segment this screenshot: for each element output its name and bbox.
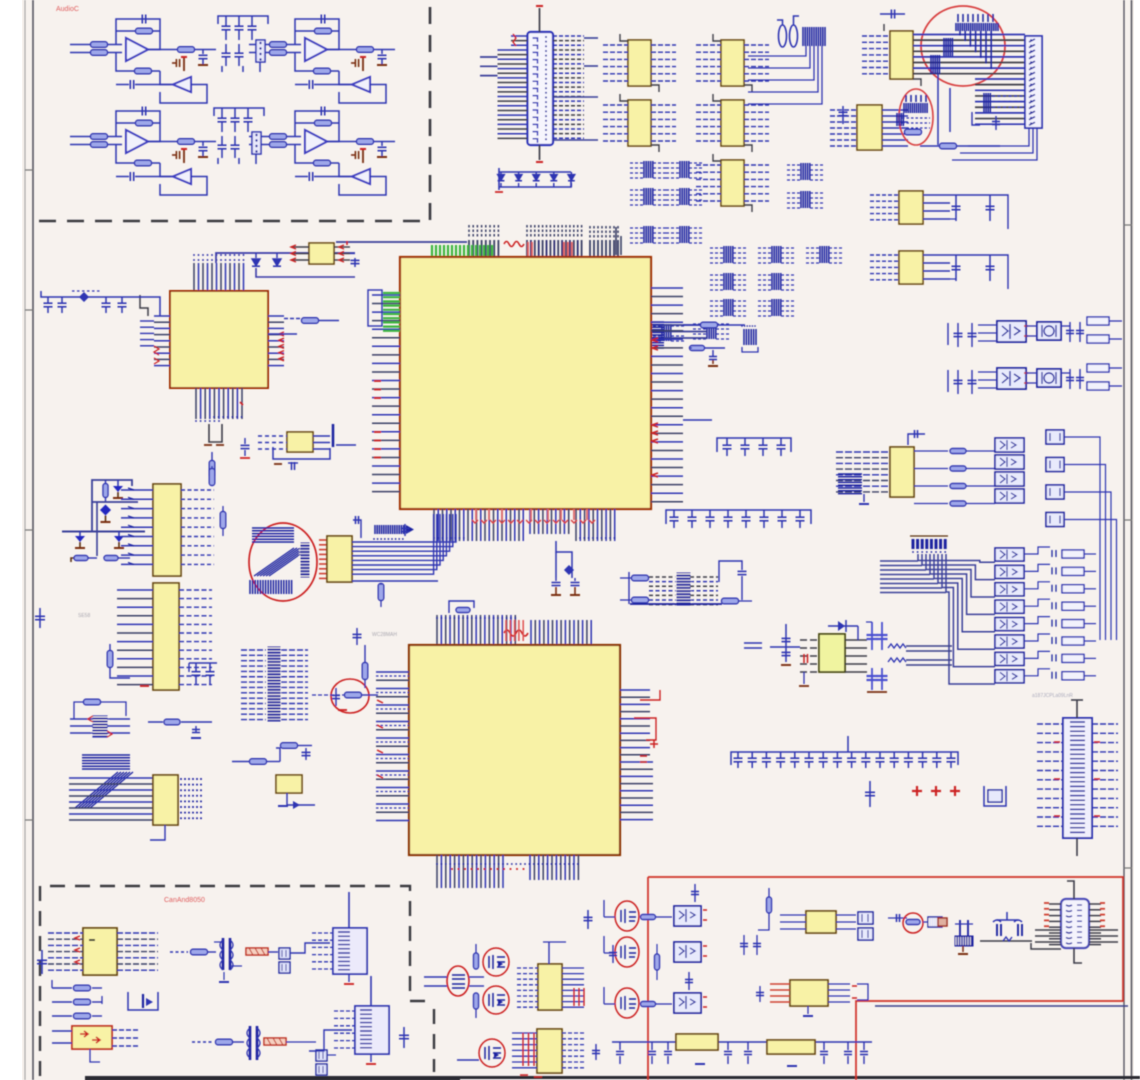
left border tick marks	[25, 170, 33, 820]
bottom rail	[630, 603, 722, 605]
opto-LED U24	[995, 548, 1024, 561]
ground hook below left pins	[803, 672, 805, 684]
rail hook left	[947, 323, 949, 345]
diode D2	[515, 175, 522, 181]
red stub right	[346, 241, 348, 245]
op-amp buffer U6	[173, 169, 191, 184]
diode D3	[533, 175, 540, 181]
ferrite bead cluster L4	[666, 189, 680, 191]
capacitor bars pair	[959, 920, 961, 936]
transformer T2	[249, 1026, 252, 1060]
wire lower branch	[116, 145, 135, 164]
driver U19 body	[1037, 369, 1061, 387]
capacitor chain 16x	[731, 752, 958, 765]
wire top-left long	[336, 241, 467, 243]
capacitor C23	[234, 108, 236, 118]
IC U15 body	[327, 536, 352, 582]
capacitor C50	[780, 752, 782, 758]
capacitor C2	[202, 50, 204, 55]
resistor outline R29	[1062, 620, 1084, 628]
wire right long with resistor	[683, 324, 700, 326]
comb with arrow above U15	[375, 525, 404, 534]
junction diamond	[79, 292, 89, 302]
resistor R (red hatched) 2	[264, 1038, 286, 1045]
IC U21 (CAN transceiver) body	[83, 928, 117, 975]
red arrows header	[88, 716, 93, 722]
resistor R11	[91, 134, 108, 140]
grid connector solid	[677, 573, 690, 605]
green pin strip left	[383, 292, 400, 294]
capacitor chain 8x	[666, 510, 811, 524]
bus rows to J2 lower	[975, 78, 1025, 80]
red arrow marks right pins	[652, 338, 658, 342]
IC U8 right pins	[882, 109, 908, 111]
dashed rows right	[690, 576, 718, 578]
resistor R6	[270, 42, 287, 48]
U28 right pins	[828, 983, 850, 985]
connector J4 right pin rows	[1092, 723, 1118, 725]
resistor outline R22	[1087, 335, 1109, 343]
ferrite bead cluster L3	[630, 189, 644, 191]
wire + hook right	[1024, 582, 1050, 589]
connector J1 right pin wires	[553, 35, 584, 37]
wire lower branch	[295, 53, 314, 72]
capacitor h	[888, 917, 907, 919]
ferrite bead cluster L12	[710, 274, 724, 276]
resistor R33	[641, 915, 656, 920]
wire feedback lower branch	[116, 122, 160, 124]
wire input pair	[249, 44, 270, 46]
capacitor C16 (bias)	[362, 149, 364, 163]
IC U8 body (second right)	[857, 105, 882, 150]
capacitor C78	[863, 1042, 865, 1050]
IC U10 corner hooks	[713, 34, 721, 41]
bottom pin dotted tails	[433, 537, 435, 539]
MCU U18 right pin rows upper	[620, 689, 650, 691]
IC U20 body	[819, 634, 845, 672]
capacitor C75	[747, 1042, 749, 1050]
red hook outlines right	[640, 690, 660, 700]
optocoupler U20	[995, 438, 1024, 452]
capacitor C66	[1079, 322, 1081, 342]
resistor vertical below bus	[378, 584, 384, 601]
mosfet Q5	[489, 955, 505, 969]
wire output	[148, 49, 178, 51]
IC U16 body	[153, 775, 178, 825]
svg-text:CanAnd8050: CanAnd8050	[164, 897, 205, 904]
resistor under circle	[940, 143, 957, 149]
transistor pair Q	[279, 948, 290, 959]
op-amp buffer U8	[352, 169, 370, 184]
QFP U11 right pins	[268, 315, 284, 317]
sheet border right outer line	[1131, 0, 1133, 1080]
capacitor C21	[238, 44, 240, 53]
dotted rows to J2 lower	[992, 95, 1025, 97]
bus rows U7 to J2 upper	[913, 34, 1025, 36]
header right wires	[107, 718, 130, 720]
capacitor C right of U12	[354, 258, 356, 267]
wire loop above header	[74, 702, 84, 719]
isolator U34 body	[674, 993, 701, 1013]
IC U14b left pins	[117, 589, 153, 591]
capacitor C41	[709, 510, 711, 517]
capacitor C15	[308, 172, 310, 181]
blue wire along red border bottom	[875, 1005, 1128, 1007]
wire left hook	[604, 1003, 615, 1005]
svg-text:WC28MAH: WC28MAH	[372, 632, 397, 638]
dashed feed	[170, 951, 188, 953]
resistor R34	[641, 1002, 656, 1007]
dashed rows	[649, 576, 676, 578]
wire right of bar	[336, 444, 356, 446]
capacitor C38	[780, 438, 782, 445]
header teeth	[91, 717, 109, 735]
diode D1	[498, 175, 505, 181]
capacitor C33	[105, 297, 107, 303]
capacitor C32	[61, 297, 63, 303]
resistor R10	[314, 68, 331, 74]
IC U11 left pins	[603, 104, 628, 106]
IC U11 corner hooks	[620, 94, 628, 101]
IC U24 right pins	[562, 1032, 586, 1034]
IC U14a body	[153, 484, 181, 576]
red mark below circle	[338, 709, 347, 711]
capacitor pair	[743, 935, 745, 955]
bottom wire with glyph	[980, 940, 1032, 942]
resistor row 1	[52, 987, 72, 989]
red highlight circle cluster	[249, 523, 317, 601]
U22 right pins	[112, 1029, 140, 1031]
wire loop right	[950, 255, 1008, 289]
IC U15 body	[899, 251, 923, 284]
capacitor left with red tick	[785, 624, 787, 662]
capacitor C30	[989, 255, 991, 281]
capacitor C44	[763, 510, 765, 517]
connector J1 inner hook glyphs	[533, 38, 538, 42]
QFP U11 left pins	[154, 315, 170, 317]
IC U13 left pins	[696, 164, 721, 166]
gnd stub U28	[807, 1006, 809, 1014]
red section border	[648, 877, 1123, 1080]
red pin columns in top field	[527, 242, 529, 256]
U28 left red hatch pins	[770, 983, 790, 985]
left pins dotted mids	[376, 675, 409, 677]
capacitor C mid2	[595, 1044, 597, 1060]
wire + hook right	[1024, 669, 1050, 676]
resistor R13	[136, 120, 153, 126]
driver Q4	[1046, 513, 1064, 527]
capacitor C6	[381, 50, 383, 55]
capacitor C36	[744, 438, 746, 445]
opto-LED U30	[995, 652, 1024, 665]
capacitor Cx1	[555, 578, 557, 581]
connector column solid	[301, 543, 309, 577]
diode D4	[550, 175, 557, 181]
bus rows to U16	[69, 777, 153, 779]
wire loop right	[950, 195, 1008, 229]
red hatch pins left of U15	[319, 539, 327, 541]
header J5 bottom red tick	[348, 974, 350, 982]
ferrite bead	[928, 917, 942, 927]
ferrite bead cluster L7	[787, 164, 801, 166]
vertical feed lines down from bundle	[937, 74, 939, 145]
driver Q2	[1046, 458, 1064, 472]
IC U12 left pins with red arrows	[291, 246, 309, 248]
wire up to header 2	[309, 1030, 352, 1051]
wire + hook right	[1024, 564, 1050, 571]
wire feedback lower branch	[295, 122, 339, 124]
op-amp U3	[305, 38, 327, 61]
IC U15 bus to MCU	[352, 514, 456, 542]
header J5 left pins	[312, 932, 333, 934]
connector header J2	[252, 132, 261, 154]
dashed region border (CAN section)	[40, 886, 430, 1076]
wire buffer loop	[160, 85, 207, 104]
junction diamond	[100, 505, 111, 516]
diode D5	[255, 253, 257, 258]
wire coupling rail top	[214, 108, 264, 116]
wire + hook right	[1024, 547, 1050, 554]
capacitor C37	[762, 438, 764, 445]
capacitor above row A	[694, 884, 696, 902]
wire U12 right down	[350, 253, 355, 255]
opto-LED U26	[995, 583, 1024, 596]
bottom rail	[612, 1041, 676, 1043]
opto-LED U31	[995, 670, 1024, 683]
capacitor mid	[869, 781, 871, 807]
ferrite bead cluster L15	[758, 300, 772, 302]
diode D5	[568, 175, 575, 181]
hook and cap below circle	[972, 112, 980, 125]
capacitor C74	[727, 1042, 729, 1050]
diagonal bus inside circle	[254, 548, 294, 576]
connector J1 top stub	[539, 8, 541, 32]
U23 top stub	[548, 942, 550, 964]
IC U20 right pins	[845, 639, 867, 641]
MCU U18 bottom stubs	[436, 855, 438, 888]
opto-LED U27	[995, 600, 1024, 613]
wires to right edge nested	[1064, 437, 1100, 640]
red-brown ticks below	[204, 444, 224, 446]
connector J2 pin glyphs	[1029, 39, 1035, 42]
wire feedback loop	[295, 19, 339, 50]
resistor R	[216, 1039, 233, 1045]
IC U14 left pins	[870, 194, 899, 196]
QFP U11 top pin dotted tips	[193, 259, 195, 261]
wire right row mid	[268, 333, 297, 335]
inductor L2	[790, 25, 798, 47]
IC U14 body	[899, 191, 923, 224]
IC U25 left pins	[780, 914, 806, 916]
IC U27 DIP body	[1061, 899, 1089, 948]
resistor R (red hatched)	[246, 948, 268, 955]
wire rows to opto	[978, 324, 996, 326]
capacitor C27	[955, 195, 957, 221]
IC U12 right pins with red arrows	[334, 246, 350, 248]
capacitor gnd mid	[195, 726, 197, 733]
wire feedback loop	[116, 19, 160, 50]
driver U17 body	[1037, 322, 1061, 340]
resistor R18	[315, 120, 332, 126]
ferrite bead cluster L13	[758, 274, 772, 276]
driver Q3	[1046, 485, 1064, 499]
IC U19 body	[890, 447, 914, 497]
IC U9 right pins	[651, 44, 676, 46]
black U wire below U11	[209, 424, 222, 442]
capacitor C67	[957, 370, 959, 394]
cap loop top right	[719, 561, 742, 582]
MCU U10 bottom pin field	[433, 509, 435, 541]
capacitor C55	[851, 752, 853, 758]
IC U16 right dotted field	[180, 778, 182, 780]
bundle rows from left	[880, 560, 918, 562]
optocoupler U22	[995, 472, 1024, 486]
wire left staircase	[140, 295, 148, 316]
connector J4 body	[1063, 718, 1092, 838]
wire comb fan to ICs	[748, 46, 806, 56]
IC U12 body	[721, 100, 744, 146]
wire feedback loop	[116, 111, 160, 142]
resistor R1	[91, 42, 108, 48]
supply rail with caps (left)	[41, 291, 150, 297]
header J5 body	[333, 928, 367, 974]
U22 bottom hook	[90, 1049, 100, 1062]
mosfet Q10	[621, 996, 636, 1010]
wire buffer loop	[160, 177, 207, 196]
dashed segment	[72, 290, 100, 292]
capacitor C left of U13	[244, 438, 246, 444]
mosfet Q6	[489, 993, 505, 1007]
wire + hook right	[1024, 599, 1050, 606]
clamp symbol	[128, 992, 158, 1010]
IC U14b body	[153, 583, 179, 690]
op-amp U7	[305, 130, 327, 153]
capacitor C69	[1069, 369, 1071, 389]
wire chain to QFP	[150, 297, 160, 316]
capacitor C13	[320, 107, 322, 116]
gnd marks bottom	[695, 1063, 705, 1065]
header mini body	[93, 716, 107, 737]
svg-text:AudioC: AudioC	[56, 6, 79, 13]
capacitor C10	[202, 142, 204, 147]
resistor R2	[91, 50, 108, 56]
U27 lower side wires	[1035, 929, 1061, 931]
red plus marks	[912, 786, 922, 796]
connector J3 center column	[268, 647, 280, 721]
comb block inside small ellipse	[904, 103, 927, 113]
polar capacitor in loop	[113, 486, 123, 492]
wire + hook right	[1024, 634, 1050, 641]
red circle highlight	[615, 901, 639, 931]
capacitor C59	[907, 752, 909, 758]
resistor R14	[178, 139, 195, 145]
cap left of U28	[759, 986, 761, 1002]
capacitor C29	[955, 255, 957, 281]
MCU U18 top pin field	[436, 615, 438, 645]
capacitor C52	[808, 752, 810, 758]
wire up to header	[290, 943, 330, 953]
wire output	[327, 49, 357, 51]
U22 left pins	[52, 1030, 72, 1032]
resistor R20	[314, 160, 331, 166]
IC U21 left pins	[48, 932, 83, 934]
capacitor left row B	[612, 945, 614, 963]
opto-LED U28	[995, 618, 1024, 631]
capacitor C1	[141, 15, 143, 24]
wire bracket right	[857, 984, 868, 1000]
red marks right	[852, 986, 857, 998]
capacitor C57	[879, 752, 881, 758]
resistor bottom right	[722, 598, 739, 604]
capacitor Cx2	[574, 578, 576, 581]
capacitor C34	[121, 297, 123, 303]
connector J1 left long rows	[480, 56, 498, 58]
wire inductor top hooks	[777, 20, 783, 25]
svg-text:a187JCPLa09LnR: a187JCPLa09LnR	[1032, 693, 1073, 699]
bottom dotted row	[436, 863, 438, 865]
wires through	[424, 976, 447, 978]
IC U9 body	[628, 40, 651, 86]
IC U13 right pins	[313, 435, 330, 437]
ferrite bead cluster L16	[648, 325, 662, 327]
capacitor C76	[823, 1042, 825, 1050]
IC U24 body	[537, 1029, 562, 1073]
MCU U10 top pin field group1	[468, 240, 470, 257]
capacitor C58	[893, 752, 895, 758]
double wire right of IC3 top	[744, 642, 762, 644]
resistors to optos	[914, 450, 948, 452]
IC U23 body	[538, 964, 562, 1010]
vertical hook right of top field	[615, 227, 617, 255]
isolator U33 body	[674, 942, 701, 962]
MCU U10 left pin rows	[372, 294, 400, 296]
diode chain rail	[498, 168, 500, 190]
wire input pair	[70, 44, 91, 46]
driver squares pair	[858, 912, 873, 924]
red pin number dots bottom	[451, 868, 453, 870]
resistor vertical below	[209, 461, 215, 478]
red arrows inside U22	[80, 1031, 100, 1043]
main rail	[62, 531, 145, 533]
wire loop top	[276, 748, 280, 762]
IC U7 left pins	[862, 35, 890, 37]
solid blue block B	[931, 55, 939, 74]
red dashes right	[640, 756, 647, 762]
connector J4 center pins	[1070, 722, 1085, 832]
capacitor C40	[691, 510, 693, 517]
header J6 body	[355, 1006, 389, 1054]
opto-LED U29	[995, 635, 1024, 648]
resistor with ground cap	[690, 346, 705, 351]
resistor vertical row B	[655, 954, 660, 970]
MCU U18 left pin rows	[376, 671, 409, 673]
capacitor bracket above U15	[353, 520, 361, 538]
optocoupler U22 body (red border)	[72, 1026, 112, 1049]
resistor outline R28	[1062, 602, 1084, 610]
capacitor C left edge	[41, 950, 43, 974]
capacitor left of fan	[404, 524, 406, 536]
red circle highlight	[479, 1039, 505, 1067]
wire left hook	[604, 952, 615, 954]
capacitor C54	[836, 752, 838, 758]
isolator U32 body	[674, 906, 701, 926]
comb cluster below-left	[838, 474, 862, 494]
capacitor C48	[751, 752, 753, 758]
bottom dotted tails	[195, 420, 197, 422]
red hatch left pins	[803, 654, 805, 663]
resistor pair bottom	[71, 558, 74, 562]
MCU U10 right pin rows	[651, 287, 683, 289]
